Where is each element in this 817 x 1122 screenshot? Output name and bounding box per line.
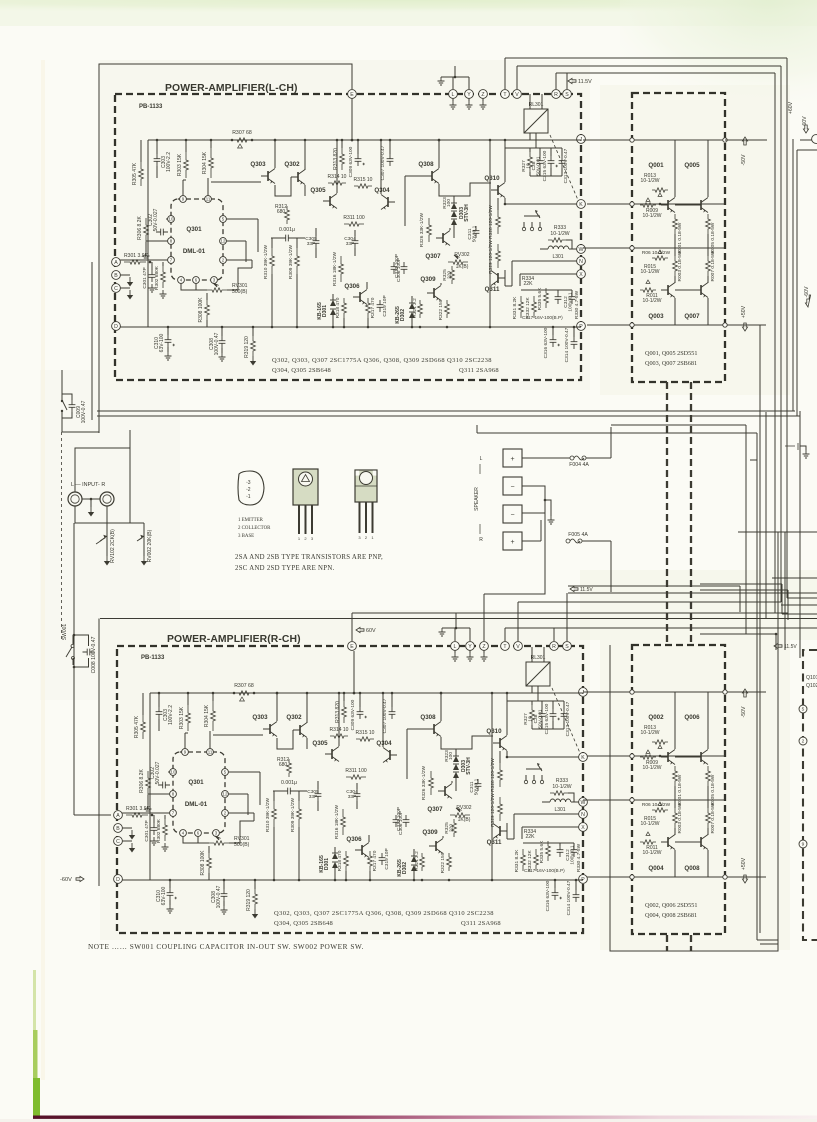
svg-text:Q303: Q303 (252, 714, 268, 721)
resistor R307 68 R-CH (234, 691, 254, 695)
svg-text:2 COLLECTOR: 2 COLLECTOR (238, 526, 271, 531)
svg-text:R330 4.7-5W: R330 4.7-5W (576, 843, 582, 872)
wire X line L-CH (520, 273, 577, 275)
capacitor 0.001u R-CH (283, 788, 295, 795)
wire pin11 up R-CH (209, 731, 211, 749)
capacitor C307 100V-0.47 L-CH (387, 154, 394, 166)
svg-text:Q102: Q102 (806, 683, 817, 689)
svg-text:SW001: SW001 (62, 624, 68, 641)
capacitor C315 63V-100 R-CH (550, 709, 557, 721)
wire N line L-CH (512, 260, 577, 262)
svg-text:C307 100V-0.47: C307 100V-0.47 (380, 145, 386, 180)
svg-text:Q307: Q307 (425, 253, 441, 260)
potentiometer RV002 20K(B) (143, 523, 145, 556)
speaker terminal 4 (503, 532, 522, 550)
wire R306 junction R-CH (147, 795, 149, 805)
transistor Q304 R-CH (389, 750, 391, 760)
transistor Q008 out-R (700, 837, 702, 847)
wire top rail out out-L (583, 139, 766, 141)
svg-text:0.001μ: 0.001μ (279, 227, 295, 233)
capacitor C313b 100V-0.47 R-CH (561, 709, 568, 721)
relay RL301 box L-CH (524, 109, 548, 133)
svg-text:10-1/2W: 10-1/2W (643, 765, 662, 771)
resistor R333 10-1/2W L-CH (548, 238, 566, 242)
transistor Q308 L-CH (431, 171, 433, 181)
svg-text:R331 8.2K: R331 8.2K (514, 849, 520, 872)
capacitor C313 100P L-CH (401, 262, 408, 274)
svg-text:R321 2.2: R321 2.2 (412, 298, 418, 318)
wire pin5 right R-CH (228, 771, 260, 773)
svg-text:10-1/2W: 10-1/2W (643, 850, 662, 856)
capacitor C314 100V-0.47 L-CH (571, 337, 578, 349)
transistor Q309 L-CH (433, 288, 435, 298)
svg-text:R310 39K-1/2W: R310 39K-1/2W (263, 244, 269, 279)
svg-text:R319 120: R319 120 (246, 889, 252, 911)
resistor R308 100K R-CH (207, 853, 212, 873)
svg-text:2SA AND 2SB TYPE TRANSISTORS A: 2SA AND 2SB TYPE TRANSISTORS ARE PNP, (235, 554, 383, 561)
resistor R308 100K L-CH (205, 300, 210, 320)
svg-text:C317 16V-100(B.P): C317 16V-100(B.P) (524, 868, 565, 873)
node diamond left top out-L (630, 138, 634, 142)
transistor Q307 L-CH (442, 233, 444, 243)
svg-text:POWER-AMPLIFIER(R-CH): POWER-AMPLIFIER(R-CH) (167, 634, 301, 645)
svg-text:100V-2.2: 100V-2.2 (168, 705, 174, 725)
svg-text:R330 4.7-5W: R330 4.7-5W (574, 290, 580, 319)
svg-text:R318 470: R318 470 (335, 297, 341, 318)
resistor R322 150 L-CH (445, 300, 450, 318)
svg-text:Q309: Q309 (420, 276, 436, 283)
wire pin10 left L-CH (166, 218, 168, 220)
block output stage dashed border out-R (632, 645, 725, 934)
node E L-CH (348, 90, 357, 99)
node P L-CH (577, 322, 586, 331)
wire mid band 594 Z-jog (484, 513, 545, 594)
svg-text:R007 0.18-5W: R007 0.18-5W (710, 250, 716, 281)
wire bottom rail out out-R (587, 876, 766, 878)
svg-text:C316 63V-100: C316 63V-100 (545, 880, 551, 911)
svg-text:Q001, Q005 2SD551: Q001, Q005 2SD551 (645, 350, 697, 357)
block POWER-AMPLIFIER(L-CH) dashed border (115, 94, 581, 380)
svg-text:C309 63V-100: C309 63V-100 (348, 146, 354, 177)
wire N line R-CH (514, 813, 579, 815)
diode D302 KB-265 R-CH (411, 856, 417, 862)
transistor Q006 out-R (700, 752, 702, 762)
svg-text:L301: L301 (554, 807, 565, 813)
resistor R305 47K L-CH (139, 162, 144, 186)
pin 4 Q301 R-CH (180, 830, 187, 837)
node diamond right bottom out-R (723, 875, 727, 879)
svg-text:5: 5 (802, 707, 805, 713)
capacitor C309 63V-100 R-CH (357, 707, 364, 719)
svg-text:33P: 33P (309, 794, 318, 800)
svg-text:Q305: Q305 (312, 740, 328, 747)
resistor R003 0.18-5W emitter out-R (673, 808, 678, 828)
svg-text:50V-0.027: 50V-0.027 (155, 761, 161, 784)
svg-text:C: C (116, 839, 120, 845)
node diamond left mid out-L (630, 246, 634, 250)
svg-text:100V-0.47: 100V-0.47 (214, 332, 220, 355)
wire pin10 left R-CH (168, 771, 170, 773)
wire right bus v766 (765, 412, 767, 619)
wire F004 up (610, 427, 612, 458)
svg-text:R311 100: R311 100 (345, 768, 367, 774)
svg-text:R314 10: R314 10 (330, 727, 349, 733)
svg-text:R317 470: R317 470 (372, 850, 378, 871)
svg-text:50V-0.1: 50V-0.1 (474, 778, 480, 795)
svg-text:C008 100V-0.47: C008 100V-0.47 (91, 636, 97, 673)
svg-text:R306 8.2K: R306 8.2K (139, 769, 145, 793)
transistor Q309 R-CH (435, 841, 437, 851)
wire pin12 right R-CH (228, 793, 248, 795)
wire dashed stub 2 below R output (690, 935, 692, 951)
transistor Q005 out-L (700, 200, 702, 210)
resistor R325 220 R-CH (452, 819, 457, 837)
svg-text:STV-3H: STV-3H (466, 757, 472, 775)
wire W join R-CH (568, 793, 574, 802)
wire 60V feed R-CH (353, 651, 355, 693)
svg-text:R005 0.18-5W: R005 0.18-5W (710, 222, 716, 253)
wire right bus v778 (777, 532, 779, 944)
svg-text:RV302: RV302 (454, 252, 469, 258)
svg-text:DML-01: DML-01 (183, 248, 206, 255)
block POWER-AMPLIFIER(R-CH) dashed border (117, 646, 583, 933)
pin 9 Q301 R-CH (182, 749, 189, 756)
wire pin5 right L-CH (226, 218, 258, 220)
svg-text:11.5V: 11.5V (578, 79, 592, 85)
pin 10 Q301 L-CH (168, 216, 175, 223)
connector V R-CH (514, 642, 523, 651)
svg-text:100V-2.2: 100V-2.2 (166, 152, 172, 172)
capacitor C310 63V-100 L-CH (165, 335, 172, 347)
svg-text:220: 220 (447, 271, 453, 279)
transistor Q310 R-CH (499, 738, 501, 748)
svg-text:KB-265: KB-265 (397, 859, 403, 877)
svg-text:K: K (581, 755, 585, 761)
svg-text:L — INPUT- R: L — INPUT- R (71, 482, 105, 488)
capacitor C316 63V-100 R-CH (552, 888, 559, 900)
svg-text:R309 39K-1/2W: R309 39K-1/2W (290, 797, 296, 832)
node B L-CH (112, 271, 121, 280)
svg-text:R326 33K-1/2W: R326 33K-1/2W (421, 765, 427, 800)
svg-text:Q008: Q008 (684, 865, 700, 872)
svg-text:W: W (579, 247, 584, 253)
gnd below L R-CH (452, 653, 459, 661)
wire right bus v800 (799, 411, 801, 658)
svg-text:RL301: RL301 (529, 102, 544, 108)
svg-text:2: 2 (802, 739, 805, 745)
resistor R327 10 L-CH (528, 152, 533, 172)
svg-text:9: 9 (802, 842, 805, 848)
pin 5 Q301 R-CH (222, 769, 229, 776)
svg-text:10-1/2W: 10-1/2W (643, 298, 662, 304)
svg-text:10-1/2W: 10-1/2W (641, 178, 660, 184)
svg-text:R307 68: R307 68 (232, 130, 252, 136)
svg-text:12: 12 (221, 239, 226, 244)
svg-text:C309 63V-100: C309 63V-100 (350, 699, 356, 730)
node K L-CH (577, 200, 586, 209)
wire mid h 416 (97, 415, 800, 417)
svg-text:0.001μ: 0.001μ (281, 780, 297, 786)
transistor Q003 out-L (667, 285, 669, 295)
wire mid h 433 (477, 432, 757, 434)
connector L L-CH (449, 90, 458, 99)
capacitor C009 100V-0.47 (69, 400, 76, 412)
svg-text:100V-0.47: 100V-0.47 (216, 885, 222, 908)
capacitor C301 47P L-CH (149, 270, 156, 282)
capacitor C315 63V-100 L-CH (548, 156, 555, 168)
svg-text:Z: Z (481, 92, 484, 98)
resistor R013 out-R (652, 740, 668, 744)
svg-text:3 BASE: 3 BASE (238, 534, 254, 539)
resistor R009 out-R (640, 755, 656, 759)
resistor R301 3.9K R-CH (126, 813, 148, 817)
R-CH left rail lower (98, 619, 100, 887)
resistor R332 12K R-CH (534, 849, 539, 871)
svg-text:R304 15K: R304 15K (204, 704, 210, 727)
node C L-CH (112, 284, 121, 293)
svg-text:Q302, Q303, Q307 2SC1775A: Q302, Q303, Q307 2SC1775A Q306, Q308, Q3… (274, 910, 494, 917)
resistor R015 out-L (652, 256, 668, 260)
svg-text:R315 10: R315 10 (354, 177, 373, 183)
pin 12 Q301 R-CH (222, 791, 229, 798)
wire pin8 left R-CH (148, 793, 170, 795)
wire top rail out out-R (583, 691, 766, 693)
R-CH outer wire box (351, 613, 353, 641)
wire minus terminals (522, 486, 545, 513)
wire right bus v757 (756, 433, 758, 940)
resistor R328 120-1/2W R-CH (498, 763, 503, 787)
capacitor C316 63V-100 L-CH (550, 335, 557, 347)
svg-text:KB-165: KB-165 (317, 302, 323, 320)
resistor R306 8.2K R-CH (146, 771, 151, 795)
wire sw001 upper leads (61, 380, 63, 392)
capacitor C306 100P R-CH (393, 815, 400, 827)
pin 6 Q301 R-CH (195, 830, 202, 837)
resistor R003 0.18-5W emitter out-L (673, 256, 678, 276)
wire mid band 613 (352, 612, 788, 614)
transistor Q302 L-CH (297, 172, 299, 182)
svg-text:-60V: -60V (60, 877, 72, 883)
wire mid band 593 (568, 592, 817, 594)
svg-text:POWER-AMPLIFIER(L-CH): POWER-AMPLIFIER(L-CH) (165, 83, 298, 94)
capacitor C38 50V-0.01 R-CH (539, 709, 546, 721)
svg-text:R305 47K: R305 47K (134, 715, 140, 738)
svg-text:R322 150: R322 150 (440, 852, 446, 873)
potentiometer RV301 500(B) R-CH (209, 841, 229, 845)
svg-text:+60V: +60V (788, 101, 794, 114)
svg-text:C319 10P: C319 10P (382, 295, 388, 316)
label 11.5V top (568, 78, 576, 83)
node diamond right bottom out-L (723, 323, 727, 327)
node J L-CH (577, 135, 586, 144)
resistor R001 0.18-5W emitter out-R (673, 766, 678, 786)
svg-text:C316 63V-100: C316 63V-100 (543, 327, 549, 358)
wire X line R-CH (522, 826, 579, 828)
capacitor C310 63V-100 R-CH (167, 888, 174, 900)
svg-text:R306 8.2K: R306 8.2K (137, 216, 143, 240)
diode D303 STV-3H R-CH (453, 756, 459, 762)
pin 8 Q301 R-CH (170, 791, 177, 798)
node K R-CH (579, 753, 588, 762)
wire pin2 right R-CH (228, 812, 254, 814)
svg-text:−: − (510, 512, 514, 519)
svg-text:KB-265: KB-265 (395, 306, 401, 324)
pin 3 Q301 R-CH (213, 830, 220, 837)
capacitor C302 R-CH (158, 782, 170, 789)
wire K feed R-CH (507, 756, 579, 758)
label 11.5V mid (570, 586, 578, 591)
node diamond left mid out-R (630, 798, 634, 802)
svg-text:22K: 22K (523, 281, 533, 287)
resistor R312 680 R-CH (287, 759, 292, 777)
svg-text:33P: 33P (348, 794, 357, 800)
resistor R329 120-1/2W L-CH (496, 244, 501, 268)
resistor R011 out-L (640, 288, 656, 292)
capacitor C38 50V-0.01 L-CH (537, 156, 544, 168)
resistor R319 120 R-CH (253, 889, 258, 909)
wire bottom rail L-CH (120, 326, 581, 328)
node J R-CH (579, 688, 588, 697)
wire right bus v755 (750, 459, 757, 461)
svg-text:680: 680 (277, 209, 286, 215)
resistor R306 8.2K L-CH (144, 218, 149, 242)
svg-text:R06 10-1/2W: R06 10-1/2W (642, 802, 671, 808)
svg-text:R317 470: R317 470 (370, 297, 376, 318)
wire right bus v760 (759, 325, 761, 933)
resistor R310 39K R-CH (272, 801, 277, 827)
svg-text:B: B (116, 826, 120, 832)
node N R-CH (579, 810, 588, 819)
relay contact set L-CH (523, 222, 525, 227)
svg-text:Y: Y (468, 644, 472, 650)
wire mid rail out out-R (583, 799, 725, 801)
diode D302 KB-265 L-CH (409, 303, 415, 309)
svg-text:Q101: Q101 (806, 675, 817, 681)
svg-text:W: W (581, 800, 586, 806)
wire mid band 602 (518, 601, 781, 603)
svg-text:R313 820: R313 820 (333, 148, 339, 170)
transistor Q004 out-R (667, 837, 669, 847)
wire B stub L-CH (120, 274, 130, 276)
wire right bus v797 (796, 150, 798, 416)
resistor R317 470 L-CH (366, 298, 371, 318)
resistor R310 39K L-CH (270, 248, 275, 274)
node diamond left base out-L (630, 202, 634, 206)
svg-text:Q309: Q309 (422, 829, 438, 836)
svg-text:50V-0.027: 50V-0.027 (153, 208, 159, 231)
svg-text:SPEAKER: SPEAKER (474, 487, 480, 511)
svg-text:1K(B): 1K(B) (456, 264, 469, 270)
wire stub T up (504, 58, 506, 89)
wire Q302 base link R-CH (277, 730, 293, 749)
package oval transistor (238, 471, 264, 505)
svg-text:R329 120-1/2W: R329 120-1/2W (490, 793, 496, 827)
capacitor C305 33P L-CH (313, 236, 320, 248)
wire pin6 down R-CH (197, 836, 199, 843)
speaker terminal 1 (503, 449, 522, 467)
pin 12 Q301 L-CH (220, 238, 227, 245)
switch SW001 upper (61, 392, 63, 400)
svg-text:Q004, Q008 2SB681: Q004, Q008 2SB681 (645, 912, 697, 919)
L-CH second left rail (91, 262, 93, 420)
resistor R013 out-L (652, 188, 668, 192)
wire driver output vertical L-CH (489, 140, 491, 327)
wire right bus v746 (745, 425, 747, 634)
gnd right top (803, 450, 810, 458)
node E R-CH (348, 642, 357, 651)
svg-text:-50V: -50V (741, 706, 747, 717)
wire right bus v793 (792, 139, 794, 411)
block Q101 dashed border (803, 650, 817, 940)
op-amp Q301 DML-01 box R-CH (173, 752, 225, 833)
fuse F004 4A (522, 457, 570, 459)
svg-text:A: A (114, 260, 118, 266)
svg-text:100V-0.1: 100V-0.1 (570, 845, 576, 865)
wire pin7 left L-CH (120, 259, 168, 261)
wire stubs above R-CH circles (454, 628, 456, 641)
resistor R015 out-R (652, 808, 668, 812)
svg-text:PB-1133: PB-1133 (141, 655, 165, 661)
svg-text:11.5V: 11.5V (784, 644, 797, 650)
wire left vertical rail R-CH (149, 693, 151, 880)
svg-text:L: L (454, 644, 457, 650)
resistor R001 0.18-5W emitter out-L (673, 214, 678, 234)
svg-text:◦2: ◦2 (246, 487, 251, 493)
resistor R315 10 L-CH (354, 184, 372, 188)
wire base rail out out-L (587, 203, 725, 205)
wire base rail out out-R (587, 755, 725, 757)
capacitor C308 100V-0.47 R-CH (221, 889, 228, 901)
wire jack L down (75, 506, 144, 523)
resistor R316 18K R-CH (341, 809, 346, 835)
resistor R329 120-1/2W R-CH (498, 797, 503, 821)
svg-text:R001 0.18-5W: R001 0.18-5W (677, 222, 683, 253)
svg-text:10-1/2W: 10-1/2W (550, 231, 569, 237)
wire mid band 628 T-jumper (505, 627, 755, 629)
potentiometer RV302 1K(B) R-CH (450, 813, 470, 817)
wire F005 right (610, 541, 612, 592)
svg-text:L: L (480, 456, 483, 462)
svg-text:60V: 60V (802, 116, 808, 126)
resistor R304 15K R-CH (211, 701, 216, 731)
svg-text:R308 100K: R308 100K (200, 850, 206, 876)
svg-text:DML-01: DML-01 (185, 801, 208, 808)
wire stub R up (555, 73, 557, 89)
transistor Q305 L-CH (329, 196, 331, 206)
node A L-CH (112, 258, 121, 267)
svg-text:R328 120-1/2W: R328 120-1/2W (488, 205, 494, 239)
svg-text:C314 100V-0.47: C314 100V-0.47 (564, 327, 570, 362)
transistor Q001 out-L (667, 200, 669, 210)
svg-text:R311 100: R311 100 (343, 215, 365, 221)
connector S L-CH (563, 90, 572, 99)
potentiometer RV302 1K(B) L-CH (448, 260, 468, 264)
svg-text:RV102 2CK(B): RV102 2CK(B) (110, 529, 116, 563)
svg-text:+: + (510, 456, 514, 463)
svg-text:Q002, Q006 2SD551: Q002, Q006 2SD551 (645, 902, 697, 909)
resistor R335 5.6K L-CH (544, 288, 549, 308)
svg-text:X: X (581, 825, 585, 831)
wire caps top R-CH (507, 700, 564, 702)
speaker terminal 2 (503, 477, 522, 495)
svg-text:22K: 22K (525, 834, 535, 840)
resistor R303 15K L-CH (184, 152, 189, 178)
wire R306 junction L-CH (145, 242, 147, 252)
wire Q302 base link L-CH (275, 177, 291, 196)
resistor R331 8.2K R-CH (521, 849, 526, 871)
svg-text:E: E (350, 92, 354, 98)
svg-text:C317 16V-100(B.P): C317 16V-100(B.P) (522, 315, 563, 320)
